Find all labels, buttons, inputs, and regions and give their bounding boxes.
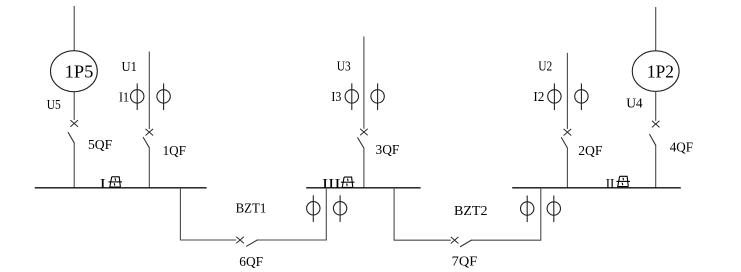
breaker 4QF (x mark) (652, 121, 660, 128)
wire: bus III drop to tie BZT2 (394, 188, 451, 240)
bus label mu glyph for bus I (109, 177, 123, 187)
bus I (35, 187, 207, 189)
wire: tie BZT1 to bus III riser (258, 188, 327, 240)
breaker 6QF (x mark) (236, 237, 244, 244)
svg-text:BZT1: BZT1 (236, 202, 267, 217)
disconnector blade of 4QF (650, 135, 656, 146)
svg-text:1QF: 1QF (163, 144, 187, 159)
CT BZT2 right (547, 196, 560, 223)
breaker 1QF (x mark) (146, 129, 154, 136)
svg-text:1P2: 1P2 (647, 61, 674, 81)
svg-text:I: I (100, 177, 107, 192)
svg-text:6QF: 6QF (239, 255, 263, 270)
breaker 7QF (x mark) (451, 237, 459, 244)
wire: 1P2 circle to breaker 4QF (655, 92, 657, 121)
svg-text:7QF: 7QF (452, 255, 478, 270)
svg-text:III: III (322, 177, 341, 192)
wire: incoming feeder line above source 1P2 (655, 7, 657, 51)
svg-text:I1: I1 (119, 91, 129, 106)
wire: tie BZT2 to bus II riser (471, 188, 540, 240)
wire: 1P5 circle to breaker 5QF (73, 92, 75, 120)
bus label mu glyph for bus III (341, 177, 355, 187)
bus label mu glyph for bus II (616, 176, 630, 186)
CT BZT2 left (521, 196, 534, 223)
wire: 2QF to bus II (566, 148, 568, 189)
CT I1 left (131, 83, 144, 110)
wire: 3QF to bus III (363, 148, 365, 188)
svg-text:3QF: 3QF (376, 143, 400, 158)
svg-text:1P5: 1P5 (65, 61, 94, 81)
CT I2 left (548, 83, 561, 110)
disconnector blade of 3QF (358, 138, 364, 148)
breaker 3QF (x mark) (360, 129, 368, 136)
CT BZT1 right (333, 195, 346, 222)
wire: 1QF to bus I (148, 148, 150, 189)
bus III (306, 187, 420, 189)
wire: 5QF to bus I (73, 143, 75, 189)
source circle 1P5 (51, 51, 98, 92)
svg-text:BZT2: BZT2 (454, 204, 488, 219)
svg-text:U4: U4 (626, 97, 643, 112)
svg-text:5QF: 5QF (88, 138, 112, 153)
CT I1 right (157, 83, 170, 110)
wire: feeder U3 down line (363, 37, 365, 129)
svg-text:U1: U1 (122, 60, 137, 75)
wire: feeder U2 down line (566, 53, 568, 129)
wire: incoming feeder line above source 1P5 (73, 6, 75, 51)
svg-text:4QF: 4QF (670, 141, 694, 156)
source circle 1P2 (632, 51, 679, 92)
svg-text:I2: I2 (533, 90, 544, 105)
svg-text:I3: I3 (331, 90, 341, 105)
CT BZT1 left (307, 195, 320, 222)
svg-text:II: II (606, 177, 615, 192)
disconnector blade of 6QF (247, 240, 258, 246)
disconnector blade of 7QF (460, 240, 471, 247)
svg-text:U3: U3 (337, 60, 351, 75)
disconnector blade of 2QF (561, 138, 567, 148)
CT I3 left (345, 83, 358, 110)
breaker 2QF (x mark) (564, 129, 572, 136)
wire: 4QF to bus II (655, 145, 657, 188)
CT I2 right (575, 83, 588, 110)
bus II (512, 187, 681, 189)
svg-text:U2: U2 (538, 60, 552, 75)
breaker 5QF (x mark) (70, 120, 78, 127)
svg-text:2QF: 2QF (578, 144, 602, 159)
CT I3 right (371, 83, 384, 110)
svg-text:U5: U5 (47, 98, 61, 113)
wire: feeder U1 down line (148, 52, 150, 130)
disconnector blade of 1QF (143, 138, 149, 148)
wire: bus I drop to tie BZT1 (180, 188, 236, 240)
disconnector blade of 5QF (68, 133, 74, 143)
